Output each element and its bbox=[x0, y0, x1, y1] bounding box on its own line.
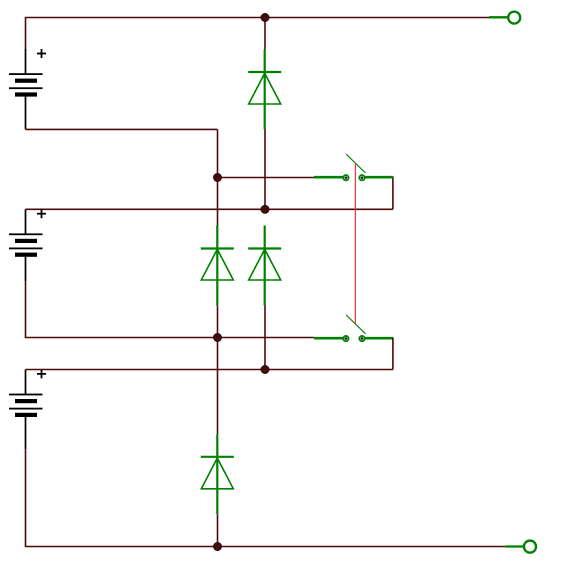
switch S2 bbox=[314, 315, 393, 341]
terminal T2 (output, bottom right) bbox=[505, 541, 536, 553]
diode D3 bbox=[248, 226, 281, 306]
junction node A (top rail / D1) bbox=[261, 14, 269, 22]
wire: battery B2 positive rail bbox=[26, 208, 393, 210]
wire: diode D4 to bottom rail bbox=[217, 514, 219, 546]
junction node B (B1- / S1 feed) bbox=[214, 174, 222, 182]
wire: node B to switch S1 left contact bbox=[218, 177, 314, 179]
wire: x=265 diode D1 to node C bbox=[264, 129, 266, 209]
battery B3 bbox=[9, 369, 46, 449]
junction node F (bottom rail / D4) bbox=[214, 543, 222, 551]
junction node D (B2- rail / D2-D4) bbox=[214, 334, 222, 342]
wire: battery B3 positive rail bbox=[26, 369, 393, 371]
wire: x=265 diode D3 to node E bbox=[264, 306, 266, 370]
wire: x=217 node D down through diode D4 bbox=[217, 306, 219, 435]
diode D4 bbox=[201, 434, 234, 514]
wire: battery B3 negative down to bottom rail bbox=[26, 449, 506, 546]
wire: vertical x=217 from B1- corner down to diode D2 bbox=[217, 129, 219, 225]
wire: battery B2 negative down and right to node D bbox=[26, 281, 314, 338]
wire: switch S2 right contact drop bbox=[392, 338, 394, 370]
battery B2 bbox=[9, 209, 46, 281]
wire: battery B1 positive to top rail bbox=[26, 18, 266, 50]
junction node C (B2+ rail / D1-D3) bbox=[261, 205, 269, 213]
terminal T1 (output, top right) bbox=[489, 12, 520, 24]
wire: battery B1 negative to diode column x=217 bbox=[26, 128, 218, 130]
diode D2 bbox=[201, 226, 234, 306]
junction node E (B3+ rail / D3) bbox=[261, 366, 269, 374]
wire: top rail from node A to terminal T1 stub bbox=[265, 17, 490, 19]
diode D1 bbox=[248, 50, 281, 130]
wire: switch S1 right contact drop bbox=[392, 177, 394, 210]
wire: x=265 top rail to diode D1 bbox=[264, 18, 266, 50]
battery B1 bbox=[9, 49, 46, 129]
switch S1 bbox=[314, 154, 393, 180]
mechanical link between S1 and S2 levers bbox=[354, 163, 356, 324]
